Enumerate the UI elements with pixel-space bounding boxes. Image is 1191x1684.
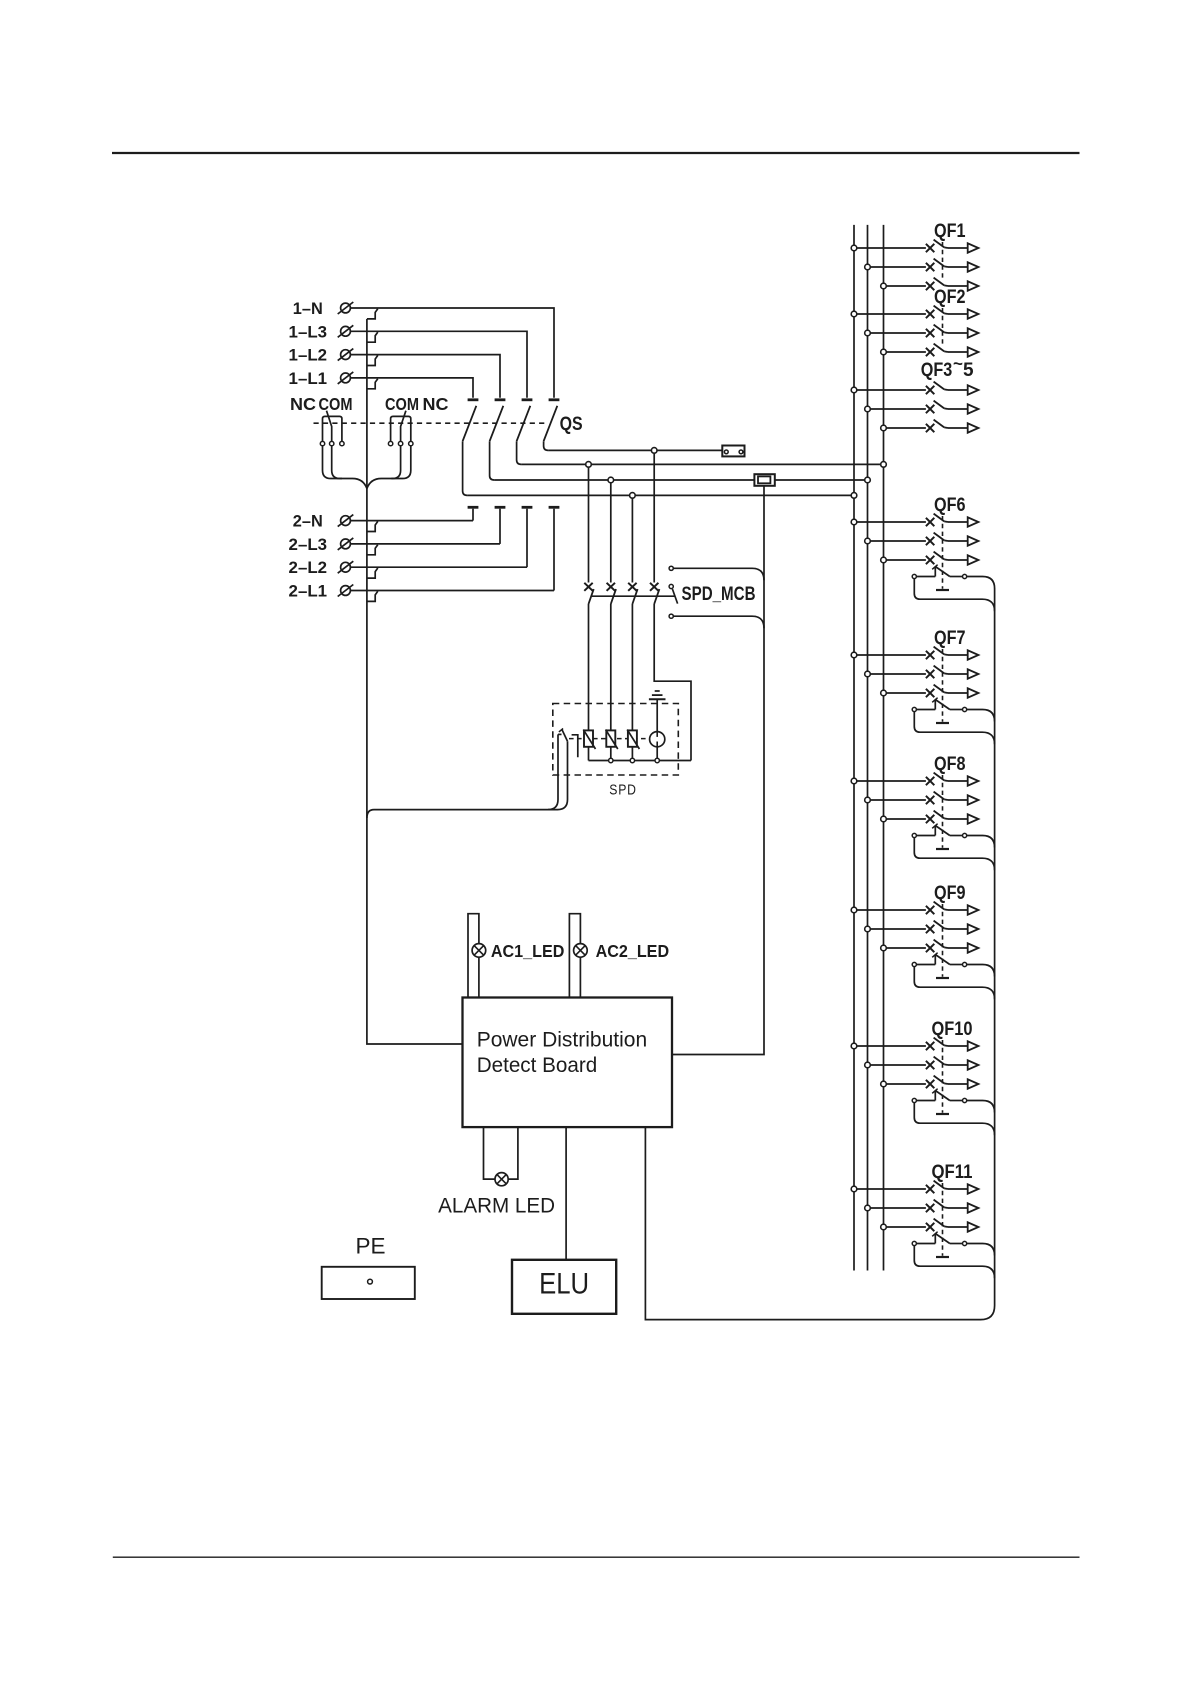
wire [942,1183,944,1256]
arrow out [968,1222,979,1231]
wire [942,649,944,722]
wire [656,699,658,731]
wire [886,692,926,694]
svg-text:QF8: QF8 [934,754,966,775]
wire [589,760,692,762]
detect board U1 [463,998,673,1128]
arrow out [968,1060,979,1069]
svg-text:5: 5 [963,360,974,381]
svg-text:2–L3: 2–L3 [289,536,328,554]
wire [857,909,926,911]
arrow out [968,943,979,952]
svg-text:~: ~ [953,354,963,373]
breaker pole [926,1185,934,1193]
breaker pole [926,329,934,337]
node tap [367,309,378,319]
node tap [367,379,378,389]
node [865,406,871,412]
node [851,1186,857,1192]
wire [350,543,500,545]
svg-text:NC: NC [423,394,449,414]
wire [886,427,926,429]
wire [948,351,968,353]
node [865,926,871,932]
wire [565,1127,567,1260]
wire [113,1556,1080,1558]
contact QS pole 2 lower [495,506,506,509]
node [865,1205,871,1211]
arrow out [968,688,979,697]
svg-text:1–L1: 1–L1 [289,370,328,388]
svg-text:AC2_LED: AC2_LED [596,941,670,961]
node [881,557,887,563]
node [865,330,871,336]
wire [521,463,883,465]
wire [631,604,633,730]
bus L2 [867,225,869,1271]
wire [886,285,926,287]
svg-text:QF10: QF10 [932,1019,973,1040]
svg-text:SPD_MCB: SPD_MCB [682,584,756,605]
svg-text:PE: PE [356,1233,386,1258]
svg-text:2–N: 2–N [293,513,323,531]
arrow out [968,404,979,413]
wire [112,152,1080,154]
breaker pole [926,777,934,785]
wire [967,1101,995,1113]
breaker pole [926,689,934,697]
wire [914,579,994,612]
node [865,797,871,803]
wire [948,818,968,820]
wire [857,389,926,391]
wire [948,1188,968,1190]
wire [870,540,926,542]
wire [948,692,968,694]
arrow out [968,309,979,318]
wire [948,1045,968,1047]
switch QS pole 2 [495,398,506,401]
wire [870,266,926,268]
svg-text:QF1: QF1 [934,221,966,242]
wire [914,1103,994,1136]
breaker pole [926,537,934,545]
wire [631,498,633,582]
node [851,1043,857,1049]
breaker pole [926,1061,934,1069]
wire [656,747,658,761]
arrow out [968,776,979,785]
SPD enclosure [553,704,679,776]
wire [673,568,764,580]
node [608,477,614,483]
wire [588,747,590,761]
wire [857,1045,926,1047]
wire [942,904,944,977]
wire [672,485,764,1054]
bus L3 [883,225,885,1271]
breaker pole [926,1042,934,1050]
wire [886,559,926,561]
breaker SPD_MCB pole 2 [607,583,615,591]
node [881,349,887,355]
wire [870,673,926,675]
wire [350,520,473,522]
node [881,1224,887,1230]
node [851,387,857,393]
node [881,425,887,431]
arrow out [968,1079,979,1088]
wire [948,799,968,801]
wire [948,1226,968,1228]
breaker pole [926,405,934,413]
wire [350,590,554,592]
node [630,493,636,499]
breaker pole [926,1223,934,1231]
wire [948,909,968,911]
contact SPD_MCB aux [669,566,673,570]
node [865,477,871,483]
breaker pole [926,1080,934,1088]
breaker SPD_MCB pole 1 [584,583,592,591]
node [881,945,887,951]
arrow out [968,1041,979,1050]
node tap [367,521,378,531]
wire [350,308,554,398]
wire [323,446,343,479]
wire [948,673,968,675]
breaker pole [926,556,934,564]
node tap [367,332,378,342]
wire [886,1226,926,1228]
wire [367,734,558,818]
svg-text:ELU: ELU [539,1268,589,1301]
node [881,1081,887,1087]
gas discharge tube [650,732,665,747]
arrow out [968,423,979,432]
contact QF7 aux [912,707,916,711]
wire [948,247,968,249]
arrow out [968,924,979,933]
breaker SPD_MCB pole 4 [650,583,658,591]
arrow out [968,1203,979,1212]
wire [588,467,590,582]
node tap [367,568,378,578]
svg-text:QF3: QF3 [921,360,953,381]
contact QS pole 3 lower [522,506,533,509]
wire [942,516,944,589]
svg-text:COM: COM [385,394,419,414]
wire [942,775,944,848]
wire [653,453,655,582]
wire [468,914,479,998]
terminal block N [722,446,744,457]
wire [948,408,968,410]
wire [948,928,968,930]
wire [548,449,722,451]
svg-text:2–L1: 2–L1 [289,583,328,601]
svg-text:QF7: QF7 [934,628,966,649]
switch QS pole 1 [468,398,479,401]
wire [886,1083,926,1085]
node [865,538,871,544]
contact QF10 aux [912,1098,916,1102]
wire [948,1207,968,1209]
breaker pole [926,1204,934,1212]
wire [857,1188,926,1190]
wire [857,247,926,249]
node [881,690,887,696]
wire [948,540,968,542]
wire [592,595,676,597]
wire [870,928,926,930]
breaker pole [926,282,934,290]
wire [948,266,968,268]
breaker pole [926,906,934,914]
node [851,311,857,317]
wire [942,308,944,347]
wire [654,604,691,761]
wire [350,566,527,568]
breaker pole [926,310,934,318]
wire [610,483,612,583]
breaker pole [926,670,934,678]
wire [914,712,994,745]
wire [870,799,926,801]
svg-text:1–L3: 1–L3 [289,323,328,341]
node [655,758,659,762]
svg-text:QF11: QF11 [932,1162,973,1183]
wire [857,780,926,782]
switch QS pole 4 [549,398,560,401]
arrow out [968,243,979,252]
arrow out [968,262,979,271]
breaker SPD_MCB pole 3 [628,583,636,591]
arrow out [968,795,979,804]
wire [467,494,854,496]
wire [857,313,926,315]
arrow out [968,536,979,545]
varistor RV3 [628,730,637,746]
node [609,758,613,762]
wire [936,1113,949,1115]
node [865,671,871,677]
wire [870,1207,926,1209]
wire [350,378,473,398]
node [881,816,887,822]
wire [857,654,926,656]
ELU box [512,1260,616,1314]
svg-text:1–L2: 1–L2 [289,347,328,365]
lamp ALARM LED [495,1173,508,1186]
wire [967,710,995,722]
wire [631,747,633,761]
wire [870,332,926,334]
wire [967,577,995,589]
breaker pole [926,263,934,271]
wire [870,408,926,410]
breaker pole [926,244,934,252]
node tap [367,355,378,365]
arrow out [968,517,979,526]
wire [948,427,968,429]
wire [886,947,926,949]
wire [948,559,968,561]
wire [948,332,968,334]
contact SPD alarm [558,733,562,735]
arrow out [968,347,979,356]
arrow out [968,385,979,394]
svg-text:Power Distribution: Power Distribution [477,1027,648,1051]
PE bar [322,1267,415,1299]
node [851,245,857,251]
arrow out [968,555,979,564]
breaker pole [926,348,934,356]
node [851,493,857,499]
arrow out [968,814,979,823]
svg-text:COM: COM [319,394,353,414]
contact QF6 aux [912,574,916,578]
wire [914,1246,994,1279]
svg-text:QS: QS [560,414,583,435]
node tap [367,591,378,601]
breaker pole [926,796,934,804]
switch QS pole 3 [522,398,533,401]
varistor RV2 [606,730,615,746]
bus L1 [853,225,855,1271]
node [881,283,887,289]
breaker pole [926,518,934,526]
wire [610,604,612,730]
node [851,519,857,525]
wire [569,738,650,740]
arrow out [968,1184,979,1193]
wire [936,722,949,724]
breaker pole [926,815,934,823]
wire [936,977,949,979]
wire [870,1064,926,1066]
breaker pole [926,925,934,933]
node tap [367,545,378,555]
switch QS [314,422,548,424]
wire [948,780,968,782]
svg-text:QF9: QF9 [934,883,966,904]
wire [494,479,867,481]
node [851,778,857,784]
node [851,652,857,658]
contact QS pole 1 lower [468,506,479,509]
wire [948,1064,968,1066]
lamp AC2_LED [574,944,588,958]
breaker pole [926,944,934,952]
wire [588,604,590,730]
arrow out [968,328,979,337]
wire [673,616,764,628]
contact QS pole 4 lower [549,506,560,509]
wire [645,588,994,1319]
wire [942,1040,944,1113]
svg-text:2–L2: 2–L2 [289,559,328,577]
wire [350,331,527,398]
svg-text:QF2: QF2 [934,287,966,308]
wire [948,389,968,391]
wire [886,351,926,353]
wire [936,1256,949,1258]
contact QF8 aux [912,833,916,837]
wire [948,654,968,656]
breaker pole [926,386,934,394]
wire [936,848,949,850]
wire [948,521,968,523]
contact QF11 aux [912,1241,916,1245]
arrow out [968,650,979,659]
wire [948,1083,968,1085]
node [865,1062,871,1068]
svg-text:AC1_LED: AC1_LED [491,941,565,961]
arrow out [968,669,979,678]
wire [967,1244,995,1256]
wire [942,242,944,281]
node [651,448,657,454]
svg-text:SPD: SPD [609,782,637,799]
wire [948,947,968,949]
breaker pole [926,651,934,659]
wire [569,914,580,998]
breaker pole [926,424,934,432]
svg-text:ALARM LED: ALARM LED [438,1195,555,1218]
svg-text:QF6: QF6 [934,495,966,516]
wire [967,965,995,977]
wire [967,836,995,848]
lamp AC1_LED [472,944,486,958]
node [881,462,887,468]
node [630,758,634,762]
wire [914,838,994,871]
wire [886,818,926,820]
varistor RV1 [584,730,593,746]
node [865,264,871,270]
wire [914,967,994,1000]
current transformer [754,474,774,486]
svg-text:1–N: 1–N [293,300,323,318]
svg-text:Detect Board: Detect Board [477,1053,598,1077]
node [586,462,592,468]
wire [857,521,926,523]
arrow out [968,905,979,914]
wire [391,446,411,479]
wire [610,747,612,761]
arrow out [968,281,979,290]
wire [367,319,463,1044]
node [851,907,857,913]
svg-text:NC: NC [290,394,316,414]
contact QF9 aux [912,962,916,966]
wire [936,589,949,591]
wire [484,1127,496,1179]
wire [948,285,968,287]
wire [350,355,500,398]
wire [948,313,968,315]
ground [649,698,666,700]
